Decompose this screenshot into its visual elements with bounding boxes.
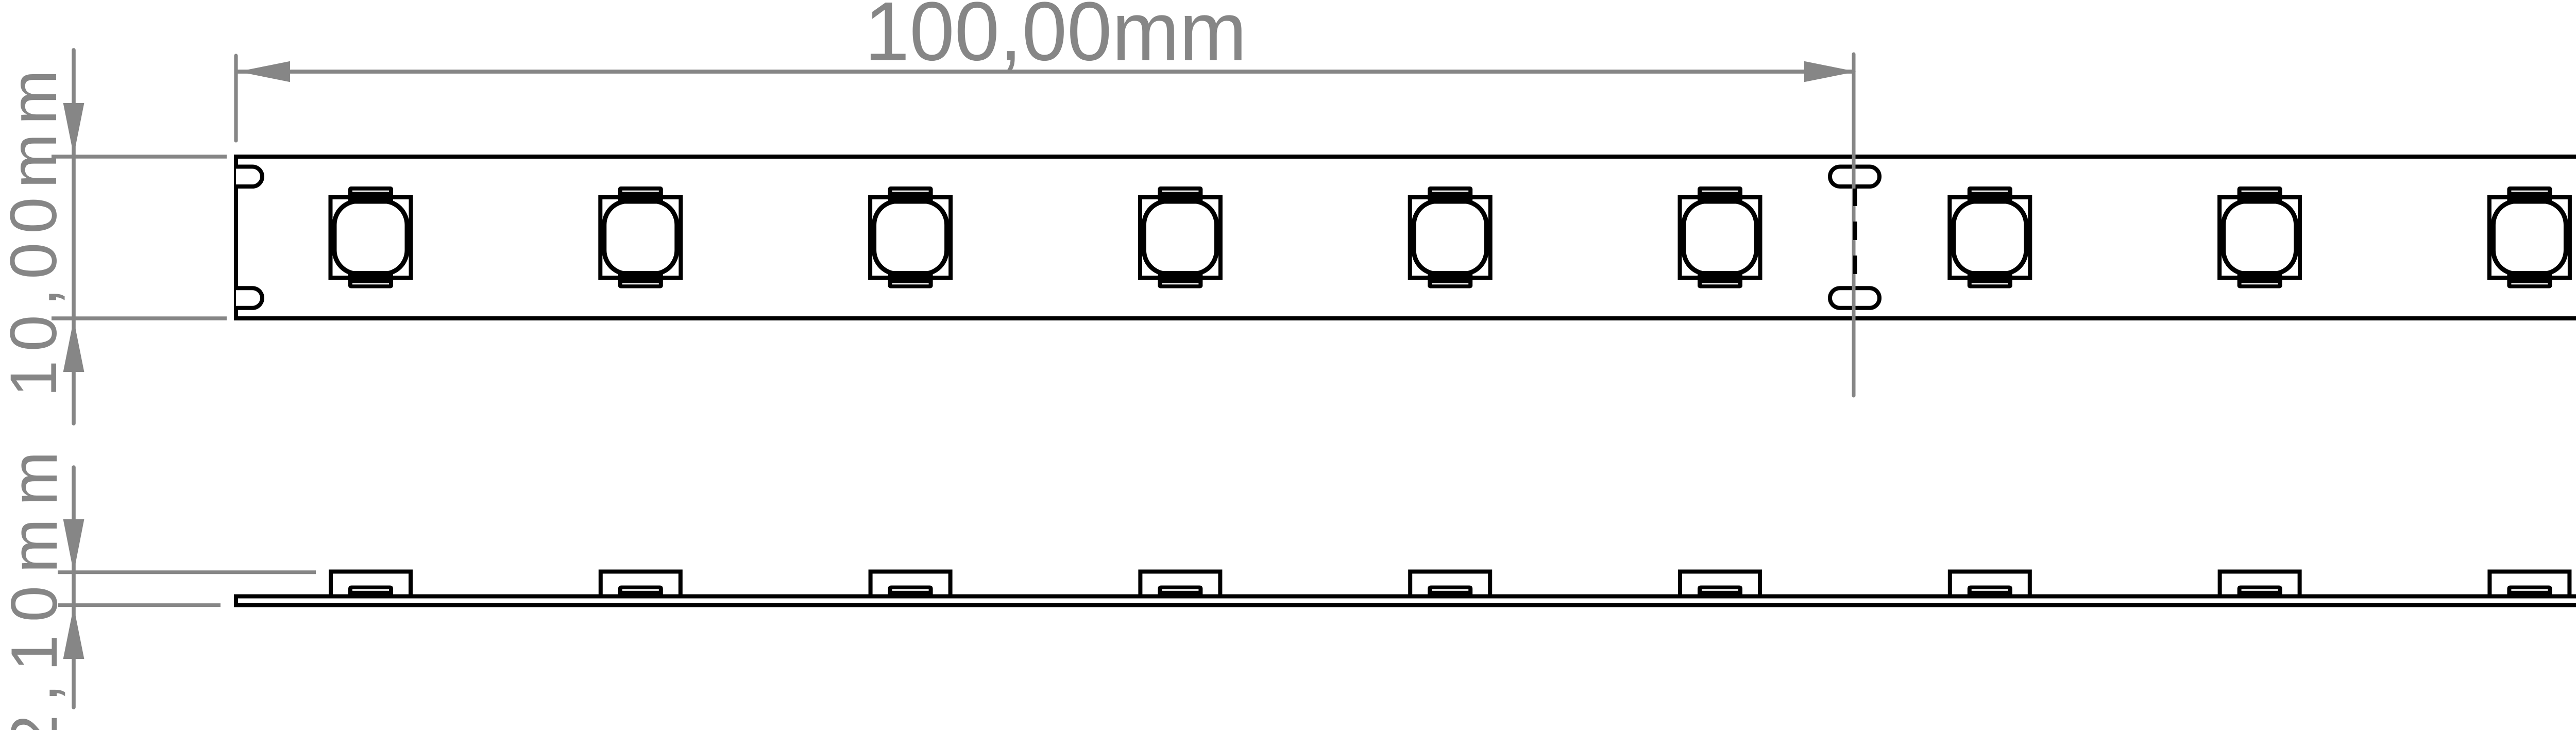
LED D2 (top view) bbox=[600, 186, 681, 288]
extension line top (10mm dimension) bbox=[52, 155, 227, 159]
LED D2 (side view) bbox=[601, 572, 681, 599]
extension line bottom (10mm dimension) bbox=[52, 316, 227, 320]
solder half-pad top-left (cut edge) bbox=[236, 167, 262, 187]
LED D7 (side view) bbox=[1950, 572, 2030, 599]
LED D8 (side view) bbox=[2220, 572, 2300, 599]
LED D5 (side view) bbox=[1410, 572, 1490, 599]
LED D1 (top view) bbox=[331, 186, 411, 288]
dimension text 100,00mm bbox=[865, 0, 1247, 78]
arrowhead right (100mm) bbox=[1804, 61, 1856, 82]
svg-text:2,10mm: 2,10mm bbox=[0, 451, 71, 730]
LED D7 (top view) bbox=[1950, 186, 2030, 288]
LED D4 (top view) bbox=[1140, 186, 1221, 288]
arrowhead up (2.1mm) bbox=[63, 606, 84, 659]
dimension text 10,00mm bbox=[0, 70, 71, 397]
LED D9 (top view) bbox=[2489, 186, 2570, 288]
PCB strip outline (side view) bbox=[236, 597, 2576, 605]
solder pad top at 100mm cut line bbox=[1830, 167, 1879, 187]
arrowhead up (10mm) bbox=[63, 319, 84, 372]
LED D1 (side view) bbox=[331, 572, 411, 599]
solder half-pad bottom-left (cut edge) bbox=[236, 288, 262, 308]
extension / cut line right (100mm dimension) bbox=[1852, 54, 1856, 396]
LED D6 (side view) bbox=[1680, 572, 1760, 599]
dimension text 2,10mm bbox=[0, 451, 71, 730]
arrowhead down (2.1mm) bbox=[63, 519, 84, 573]
arrowhead left (100mm) bbox=[238, 61, 290, 82]
LED D3 (top view) bbox=[870, 186, 951, 288]
dimension line 100,00mm bbox=[237, 70, 1854, 74]
extension line top (2.1mm dimension) bbox=[58, 570, 316, 574]
solder pad bottom at 100mm cut line bbox=[1830, 288, 1879, 308]
LED D5 (top view) bbox=[1410, 186, 1490, 288]
LED D3 (side view) bbox=[871, 572, 951, 599]
svg-text:10,00mm: 10,00mm bbox=[0, 70, 71, 397]
svg-text:100,00mm: 100,00mm bbox=[865, 0, 1247, 78]
cut-line dashes (black) bbox=[1853, 189, 1857, 274]
extension line left (100mm dimension) bbox=[234, 56, 238, 141]
LED D9 (side view) bbox=[2489, 572, 2569, 599]
LED D8 (top view) bbox=[2219, 186, 2300, 288]
extension line bottom (2.1mm dimension) bbox=[58, 603, 221, 607]
LED D4 (side view) bbox=[1140, 572, 1220, 599]
arrowhead down (10mm) bbox=[63, 103, 84, 156]
PCB strip outline (top view) bbox=[236, 157, 2576, 318]
dimension line 2,10mm (vertical) bbox=[72, 467, 76, 707]
dimension line 10,00mm (vertical) bbox=[72, 50, 76, 423]
LED D6 (top view) bbox=[1680, 186, 1760, 288]
